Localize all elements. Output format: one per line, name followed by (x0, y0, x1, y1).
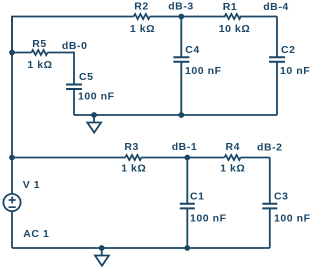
svg-text:C5: C5 (79, 71, 94, 83)
wire upper return (C5/ground to dB-4) (74, 114, 277, 116)
capacitor C3 (262, 191, 310, 225)
wire dB-3 column (180, 17, 182, 116)
capacitor C2 (269, 44, 310, 77)
junction at dB-3 column on return wire (178, 112, 184, 118)
svg-text:C1: C1 (190, 191, 205, 203)
wire R5 to dB-0 corner down to C5 (12, 53, 74, 116)
wire left rail (11, 17, 13, 249)
svg-text:R2: R2 (134, 1, 149, 13)
svg-text:dB-3: dB-3 (168, 1, 194, 13)
node dB-1 (172, 141, 198, 160)
svg-text:100 nF: 100 nF (185, 65, 222, 77)
svg-text:100 nF: 100 nF (190, 212, 227, 224)
source V1 (3, 179, 49, 240)
resistor R1 (219, 1, 251, 35)
wire middle rail (R3/R4 row) (12, 157, 270, 159)
node dB-3 (168, 1, 194, 20)
svg-text:1 kΩ: 1 kΩ (220, 163, 245, 175)
wire bottom rail (12, 247, 270, 249)
svg-text:C3: C3 (274, 191, 289, 203)
svg-text:1 kΩ: 1 kΩ (130, 23, 155, 35)
svg-text:C2: C2 (281, 44, 296, 56)
svg-text:100 nF: 100 nF (274, 212, 311, 224)
svg-text:1 kΩ: 1 kΩ (121, 163, 146, 175)
capacitor C4 (173, 44, 221, 77)
capacitor C5 (66, 71, 115, 103)
svg-text:1 kΩ: 1 kΩ (27, 59, 52, 71)
svg-text:R4: R4 (226, 141, 241, 153)
wire top rail (12, 17, 277, 54)
svg-text:100 nF: 100 nF (78, 91, 115, 103)
svg-text:C4: C4 (185, 44, 200, 56)
svg-text:R1: R1 (223, 1, 238, 13)
ground upper (87, 112, 101, 132)
resistor R3 (121, 141, 146, 175)
ground lower (95, 245, 109, 266)
svg-text:dB-0: dB-0 (62, 40, 88, 52)
wire dB-1 column (186, 158, 188, 249)
wire dB-4 column (276, 17, 278, 116)
capacitor C1 (180, 191, 227, 225)
svg-text:R3: R3 (124, 141, 139, 153)
resistor R2 (130, 1, 155, 36)
junction middle rail on left rail (9, 155, 15, 161)
resistor R4 (220, 141, 245, 175)
svg-text:V 1: V 1 (23, 179, 40, 191)
svg-text:dB-4: dB-4 (263, 1, 289, 13)
svg-text:dB-2: dB-2 (257, 142, 283, 154)
junction dB-1 column on bottom rail (184, 245, 190, 251)
svg-text:10 kΩ: 10 kΩ (219, 23, 251, 35)
svg-text:10 nF: 10 nF (280, 65, 310, 77)
junction R5 branch on left rail (9, 50, 15, 56)
resistor R5 (27, 38, 52, 71)
svg-text:dB-1: dB-1 (172, 141, 198, 153)
svg-text:R5: R5 (32, 38, 47, 50)
wire dB-2 column (269, 158, 271, 249)
svg-text:AC 1: AC 1 (23, 228, 49, 240)
